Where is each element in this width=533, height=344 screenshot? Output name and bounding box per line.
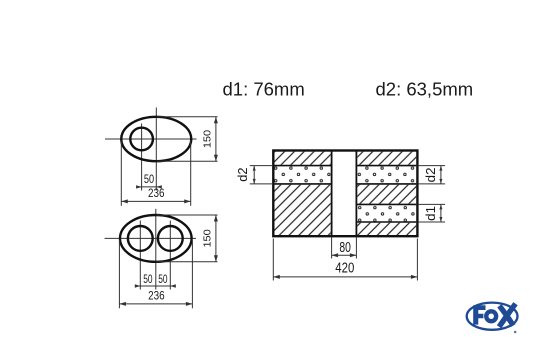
centerline horizontal B [105, 237, 197, 239]
arrow 150 A bottom [214, 155, 218, 162]
arrow 236 A left [121, 199, 128, 203]
centerline vertical A (pipe circle) [141, 124, 143, 191]
svg-text:150: 150 [202, 130, 214, 148]
perforated band right d1 [357, 205, 416, 222]
svg-text:d1: d1 [424, 206, 438, 221]
d2 tick right [440, 166, 442, 184]
dim line 236 B [119, 303, 192, 305]
svg-text:420: 420 [335, 261, 354, 277]
centerline vertical B (left pipe) [139, 221, 141, 290]
dim line 420 [273, 276, 417, 278]
svg-text:150: 150 [202, 229, 214, 247]
hatch right bottom strip [357, 223, 416, 235]
hatch left top strip [274, 152, 330, 165]
perforated band left d2 [274, 166, 330, 184]
leader bottom 150 B [157, 261, 218, 263]
centerline vertical B (ellipse center) [155, 209, 157, 290]
svg-text:50: 50 [144, 173, 154, 186]
arrow 150 B top [214, 215, 218, 222]
dim line 80 [332, 254, 357, 256]
arrow 80 left [332, 253, 339, 257]
ext line 420 right [416, 239, 418, 281]
svg-text:d2: d2 [424, 167, 438, 182]
arrow 236 B left [119, 302, 126, 306]
leader top 150 B [157, 214, 218, 216]
arrow 80 right [350, 253, 357, 257]
pipe circle B right [158, 226, 183, 251]
d1 leaders right [418, 203, 445, 205]
arrow 236 B right [186, 302, 193, 306]
dim line 50 A [137, 186, 160, 188]
leader top 150 A [157, 116, 218, 118]
svg-text:236: 236 [148, 290, 165, 303]
logo registered dot [514, 331, 517, 334]
body ellipse B [120, 215, 192, 262]
ext line 420 left [272, 239, 274, 281]
arrow 150 A top [214, 117, 218, 124]
svg-text:50: 50 [158, 273, 167, 286]
leader bottom 150 A [157, 160, 218, 162]
d2 leaders right [418, 165, 445, 167]
centerline vertical B (right pipe) [169, 221, 171, 290]
arrow 420 right [411, 275, 418, 279]
body outline C [273, 151, 417, 237]
dim line 150 B [215, 215, 217, 262]
svg-text:d2: 63,5mm: d2: 63,5mm [376, 79, 474, 100]
ext line 80 left [331, 237, 333, 259]
ext line 236 B right [191, 240, 193, 308]
d1 tick right [440, 204, 442, 222]
body ellipse A [121, 117, 191, 161]
pipe circle B left [128, 226, 153, 251]
svg-text:80: 80 [339, 240, 351, 256]
hatch right middle strip [357, 185, 416, 204]
arrow 150 B bottom [214, 255, 218, 262]
ext line 236 A right [190, 141, 192, 206]
centerline horizontal A [105, 138, 197, 140]
ext line 236 B left [118, 240, 120, 308]
ext line 236 A left [120, 141, 122, 206]
chamber gap left wall [331, 152, 333, 236]
chamber gap right wall [355, 152, 357, 236]
pipe circle A [130, 128, 153, 151]
d2 tick left [253, 166, 255, 184]
svg-text:236: 236 [148, 187, 165, 200]
arrow 236 A right [184, 199, 191, 203]
logo letter F [473, 305, 485, 324]
svg-text:50: 50 [143, 273, 152, 286]
svg-text:d1: 76mm: d1: 76mm [223, 79, 305, 100]
d2 leaders left [250, 165, 273, 167]
logo letter O [484, 309, 498, 323]
svg-text:d2: d2 [236, 167, 250, 181]
dim line 150 A [215, 117, 217, 162]
dim line 236 A [121, 200, 190, 202]
dim line 50-50 B [137, 285, 174, 287]
logo letter X [499, 306, 513, 326]
perforated band right d2 [357, 166, 416, 184]
arrow 420 left [273, 275, 280, 279]
logo ellipse [467, 303, 518, 330]
hatch left lower block [274, 185, 330, 235]
centerline vertical A (ellipse center) [155, 108, 157, 191]
ext line 80 right [355, 237, 357, 259]
hatch right top strip [357, 152, 416, 165]
